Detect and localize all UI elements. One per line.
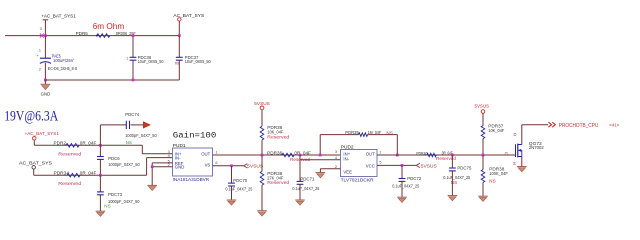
junction VS / PDC70: [230, 164, 233, 167]
ground PDC75: [448, 196, 458, 201]
svg-text:PDC75: PDC75: [457, 166, 471, 171]
ground PDC73: [96, 211, 106, 216]
wire PAE5 to gnd rail: [44, 63, 46, 80]
svg-text:PDR40: PDR40: [416, 151, 427, 156]
net label 5VSUS at VS: [244, 164, 264, 169]
junction at PDC36 bottom: [132, 79, 135, 82]
capacitor PDC73: [97, 175, 140, 211]
ground: [41, 80, 51, 96]
svg-text:PDR5: PDR5: [76, 31, 89, 36]
svg-text:5VSUS: 5VSUS: [247, 164, 263, 169]
ground PUD2 VEE: [316, 173, 326, 178]
svg-text:NS: NS: [104, 204, 110, 209]
svg-text:5: 5: [379, 161, 381, 165]
svg-text:+: +: [37, 54, 39, 58]
label Reserved PDR34: [58, 181, 82, 186]
svg-text:D: D: [514, 132, 517, 137]
resistor PDR40: [416, 150, 453, 156]
svg-text:GND: GND: [175, 165, 185, 170]
capacitor PAE5 (electrolytic): [37, 49, 78, 72]
off-page arrow: [143, 122, 150, 129]
ground PUD1: [147, 185, 157, 190]
svg-text:ns: ns: [175, 60, 179, 65]
op-amp U2 PUD2: [341, 144, 378, 182]
resistor PDR5: [76, 31, 136, 37]
svg-text:2: 2: [39, 67, 41, 71]
capacitor PDC74: [125, 112, 157, 145]
pin numbers PUD1 right: [215, 150, 217, 165]
wire to PDC37: [178, 36, 180, 58]
wire: top gnd rail: [45, 79, 179, 81]
svg-text:4: 4: [168, 154, 170, 158]
svg-text:6: 6: [215, 161, 217, 165]
net label 5VSUS at VCC: [416, 163, 437, 168]
label Gain=100: [173, 131, 217, 141]
pin numbers PUD2 left: [335, 150, 337, 169]
resistor PDR35 1M feedback: [345, 130, 392, 136]
power symbol 5VSUS #1: [254, 101, 269, 126]
ground QG72 source: [517, 167, 527, 172]
svg-text:0R_04F: 0R_04F: [294, 151, 311, 156]
label Reserved PDR40: [436, 156, 456, 161]
svg-text:PROCHOTB_CPU: PROCHOTB_CPU: [559, 123, 599, 129]
ground PDC71: [295, 200, 305, 205]
svg-text:+AC_BAT_SYS1: +AC_BAT_SYS1: [25, 131, 60, 137]
svg-text:0.1uF_04X7_25: 0.1uF_04X7_25: [292, 186, 320, 191]
capacitor PDC70: [225, 166, 253, 200]
pin number 3: [40, 27, 42, 31]
junction VCC / PDC72: [401, 164, 404, 167]
resistor PDR34: [54, 171, 97, 177]
resistor PDR38: [481, 155, 508, 196]
pin numbers PUD2 right: [379, 150, 381, 164]
label 19V@6.3A: [4, 109, 58, 125]
wire PDC37 to gnd rail: [178, 60, 180, 80]
value label 6m Ohm: [93, 21, 125, 31]
svg-text:PDC74: PDC74: [125, 112, 139, 117]
junction IN- / PDC73: [99, 174, 102, 177]
svg-text:5VSUS: 5VSUS: [421, 163, 437, 168]
junction AC_BAT_SYS tap: [178, 34, 181, 37]
svg-text:GND: GND: [41, 91, 51, 96]
junction at PAE5 bottom: [44, 79, 47, 82]
svg-text:PUD2: PUD2: [341, 144, 354, 150]
svg-text:Gain=100: Gain=100: [173, 131, 217, 141]
ground PDR38: [478, 196, 488, 201]
junction OUT / PDC71: [299, 154, 302, 157]
svg-text:1000pF_04X7_50: 1000pF_04X7_50: [125, 133, 157, 138]
power symbol +AC_BAT_SYS1: [41, 14, 76, 36]
svg-text:6m Ohm: 6m Ohm: [93, 21, 125, 31]
resistor PDR36 0R: [267, 150, 311, 157]
junction REF/GND: [151, 165, 154, 168]
junction at PDC36 top: [132, 34, 135, 37]
svg-text:5VSUS: 5VSUS: [475, 104, 490, 110]
svg-text:0.1uF_04X7_25: 0.1uF_04X7_25: [225, 187, 253, 192]
capacitor PDC37: [175, 55, 211, 65]
svg-text:0R_04F: 0R_04F: [80, 141, 97, 146]
svg-text:1: 1: [126, 56, 128, 60]
svg-text:VCC: VCC: [366, 163, 375, 168]
svg-text:0.1uF_04X7_25: 0.1uF_04X7_25: [392, 184, 420, 189]
svg-text:1: 1: [215, 150, 217, 154]
wire IN- to PUD2 pin4: [300, 159, 341, 161]
svg-text:0R_04F: 0R_04F: [80, 171, 97, 176]
wire PDC36 to gnd rail: [132, 60, 134, 80]
junction gate / PDC75: [451, 154, 454, 157]
resistor PDR2: [54, 141, 97, 147]
svg-text:3: 3: [335, 150, 337, 154]
junction IN+ / PDC6: [99, 144, 102, 147]
svg-text:Reserved: Reserved: [267, 134, 289, 139]
wire PUD2 VCC net: [377, 164, 416, 166]
svg-text:PUD1: PUD1: [173, 143, 186, 149]
pin numbers PUD1 left: [168, 150, 170, 167]
net connector +AC_BAT_SYS1: [25, 131, 60, 140]
wire to PDC36: [132, 36, 134, 58]
wire IN- net: [34, 158, 173, 176]
label Reserved 0R: [290, 157, 310, 162]
resistor PDR37: [481, 124, 505, 155]
label Reserved PDR2: [58, 151, 82, 156]
svg-text:OUT: OUT: [201, 152, 210, 157]
svg-text:G: G: [505, 151, 508, 156]
wire drain to PROCHOTB_CPU: [522, 125, 548, 145]
svg-text:+AC_BAT_SYS1: +AC_BAT_SYS1: [41, 14, 76, 20]
ground PDC72: [397, 197, 407, 202]
pin-end X marker: [40, 34, 44, 38]
svg-text:1: 1: [39, 49, 41, 53]
capacitor PDC75: [443, 155, 472, 196]
transistor Q1 QG72 2N7002: [505, 132, 545, 166]
svg-text:NS: NS: [489, 178, 495, 183]
svg-text:PDC71: PDC71: [300, 176, 314, 181]
net label PROCHOTB_CPU: [548, 122, 619, 129]
svg-text:NS: NS: [126, 140, 132, 145]
junction feedback left: [319, 154, 322, 157]
svg-text:TLV7021DCKR: TLV7021DCKR: [341, 177, 374, 182]
svg-text:NS: NS: [451, 180, 457, 185]
svg-text:PDC70: PDC70: [233, 178, 247, 183]
svg-text:Reserved: Reserved: [436, 156, 456, 161]
resistor PDR36 27K: [260, 155, 290, 211]
op-amp U1 PUD1: [173, 143, 213, 182]
svg-text:Reserved: Reserved: [267, 180, 289, 185]
svg-text:1000pF_04X7_50: 1000pF_04X7_50: [108, 162, 140, 167]
svg-text:Reserved: Reserved: [58, 151, 82, 156]
power symbol 5VSUS #2: [475, 104, 490, 126]
wire source to ground: [521, 157, 523, 167]
svg-text:2N7002: 2N7002: [529, 145, 544, 150]
wire PDC74 to arrow: [131, 124, 144, 126]
svg-text:VEE: VEE: [343, 169, 352, 174]
svg-text:PDC73: PDC73: [108, 192, 122, 197]
junction at power tap: [44, 34, 47, 37]
capacitor PDC6: [97, 145, 140, 175]
wire feedback left: [320, 135, 358, 155]
wire IN+ net: [34, 140, 172, 154]
svg-text:S: S: [513, 161, 516, 166]
svg-text:3: 3: [40, 27, 42, 31]
svg-text:10K_04F: 10K_04F: [488, 128, 504, 133]
svg-text:PDC72: PDC72: [407, 176, 421, 181]
svg-text:10uF_08X5_50: 10uF_08X5_50: [185, 59, 211, 64]
svg-text:<41>: <41>: [609, 123, 619, 128]
capacitor PDC72: [392, 165, 421, 197]
wire PUD2 OUT net: [377, 154, 516, 156]
svg-text:IN-: IN-: [343, 156, 349, 161]
capacitor PDC71: [292, 155, 320, 200]
svg-text:PDR36: PDR36: [267, 150, 282, 155]
svg-text:Reserved: Reserved: [58, 181, 82, 186]
wire to PDC74: [100, 125, 126, 145]
svg-text:10uF_08X5_50: 10uF_08X5_50: [138, 59, 164, 64]
svg-text:19V@6.3A: 19V@6.3A: [4, 109, 58, 125]
wire PUD1 OUT net: [213, 154, 341, 156]
svg-text:EC-D6_3XH5_8-S: EC-D6_3XH5_8-S: [48, 66, 78, 71]
svg-text:OUT: OUT: [366, 152, 375, 157]
power symbol AC_BAT_SYS: [173, 13, 204, 36]
junction gate / PDR37: [482, 154, 485, 157]
capacitor PDC36: [126, 55, 164, 64]
svg-text:VS: VS: [205, 163, 211, 168]
wire to PAE5: [44, 36, 46, 58]
junction feedback right: [396, 154, 399, 157]
svg-text:PDR2: PDR2: [54, 141, 67, 146]
wire feedback right: [368, 135, 398, 155]
ground 27K: [257, 211, 267, 216]
wire REF/GND to ground: [152, 163, 172, 186]
svg-text:4: 4: [335, 156, 337, 160]
wire VEE to ground: [320, 169, 340, 173]
resistor PDR36 10K: [260, 125, 290, 155]
net connector AC_BAT_SYS: [19, 161, 52, 169]
svg-text:INA181A31DBVR: INA181A31DBVR: [173, 177, 210, 182]
wire PUD1 VS net: [213, 165, 244, 167]
svg-text:IN-: IN-: [175, 156, 181, 161]
svg-text:AC_BAT_SYS: AC_BAT_SYS: [19, 161, 52, 167]
svg-text:100uF/25V: 100uF/25V: [53, 58, 74, 63]
svg-text:1: 1: [379, 150, 381, 154]
junction OUT / PDR36: [261, 154, 264, 157]
ground PDC70: [227, 200, 237, 205]
svg-text:1000pF_04X7_50: 1000pF_04X7_50: [108, 199, 140, 204]
wire: main AC_BAT_SYS rail: [5, 35, 179, 37]
svg-text:PDC6: PDC6: [108, 156, 120, 161]
svg-text:100K_04F: 100K_04F: [489, 171, 508, 176]
